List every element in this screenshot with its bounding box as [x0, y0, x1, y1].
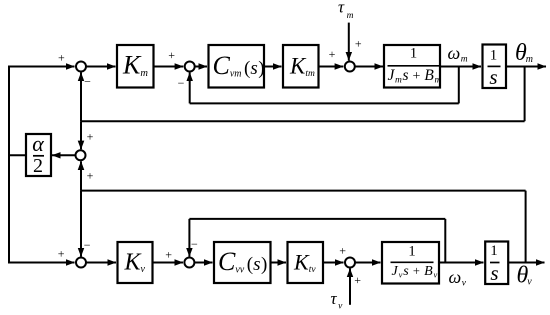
svg-text:ωm: ωm	[448, 43, 468, 65]
svg-text:τm: τm	[338, 0, 354, 21]
svg-text:ωv: ωv	[449, 267, 467, 289]
svg-text:−: −	[178, 76, 185, 90]
svg-text:+: +	[354, 273, 361, 287]
svg-text:+: +	[165, 248, 172, 262]
svg-text:τv: τv	[331, 289, 344, 312]
svg-text:−: −	[191, 237, 198, 251]
svg-text:+: +	[329, 47, 336, 61]
svg-text:Kv: Kv	[124, 250, 146, 276]
svg-text:+: +	[58, 51, 65, 65]
svg-text:Km: Km	[122, 51, 148, 80]
svg-text:s: s	[490, 261, 498, 285]
svg-text:+: +	[87, 129, 94, 143]
svg-text:1: 1	[408, 244, 416, 260]
svg-text:Jvs + Bv: Jvs + Bv	[392, 264, 439, 280]
svg-text:2: 2	[33, 155, 43, 177]
svg-text:1: 1	[490, 243, 498, 259]
svg-text:Cvm(s): Cvm(s)	[213, 51, 265, 80]
svg-text:θm: θm	[515, 40, 533, 66]
svg-text:+: +	[87, 169, 94, 183]
svg-text:−: −	[84, 238, 91, 252]
svg-text:Ktv: Ktv	[293, 250, 316, 276]
svg-text:Jms + Bm: Jms + Bm	[388, 67, 442, 86]
svg-text:Ktm: Ktm	[289, 54, 315, 80]
svg-text:+: +	[339, 244, 346, 258]
svg-text:α: α	[32, 131, 44, 156]
svg-text:1: 1	[490, 48, 498, 64]
svg-text:s: s	[489, 65, 497, 89]
svg-text:+: +	[58, 246, 65, 260]
svg-text:+: +	[355, 36, 362, 50]
svg-text:Cvv(s): Cvv(s)	[218, 247, 267, 276]
svg-text:θv: θv	[517, 263, 533, 289]
svg-text:−: −	[84, 75, 91, 89]
svg-text:+: +	[168, 48, 175, 62]
svg-text:1: 1	[410, 46, 418, 62]
